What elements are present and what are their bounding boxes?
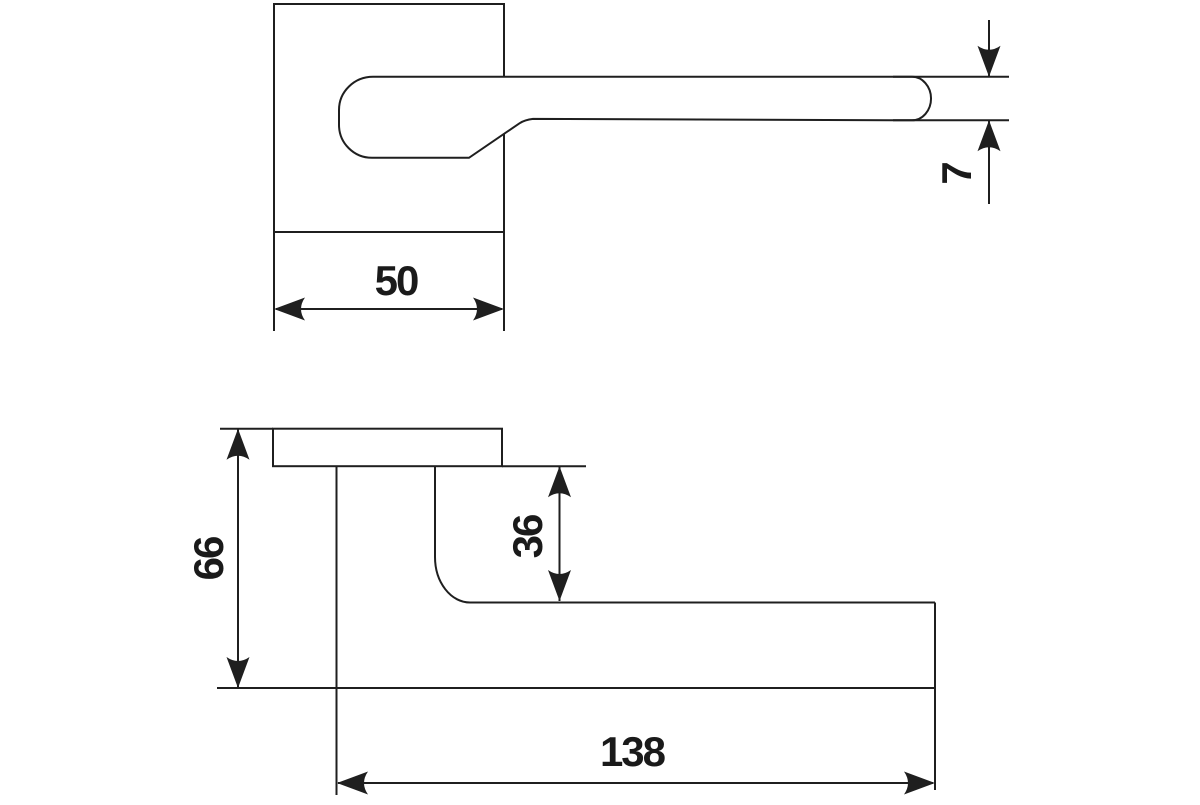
dimension line 138	[338, 782, 933, 784]
svg-text:138: 138	[600, 728, 666, 775]
dimension line 7 lower segment	[988, 120, 990, 204]
dimension line 66	[237, 429, 239, 688]
lever handle outline (top view)	[339, 77, 931, 158]
extension line left below rose	[273, 232, 275, 331]
arrowhead 66 up	[227, 429, 250, 460]
svg-text:36: 36	[504, 515, 551, 558]
dimension line 36	[559, 466, 561, 601]
dimension line 7 upper segment	[988, 20, 990, 77]
arrowhead 66 down	[227, 657, 250, 688]
arrowhead 50 right	[473, 298, 504, 321]
arrowhead 36 up	[548, 466, 571, 497]
arrowhead 7 down	[978, 46, 1001, 77]
extension line top edge of lever to right	[893, 76, 1009, 78]
arrowhead 50 left	[274, 298, 305, 321]
neck left edge (side view)	[336, 466, 338, 795]
lever bottom edge (side view)	[217, 687, 935, 689]
extension line right of plate bottom	[502, 465, 586, 467]
extension line bottom edge of lever to right	[893, 119, 1009, 121]
arrowhead 36 down	[548, 570, 571, 601]
extension line left of plate top	[220, 428, 273, 430]
svg-text:66: 66	[185, 537, 232, 580]
lever right end edge (side view)	[934, 603, 936, 791]
neck right edge with curve into lever top (side view)	[435, 466, 935, 602]
rose plate side view (bottom figure)	[273, 429, 502, 467]
extension line right below rose	[503, 232, 505, 331]
dimension line 50	[276, 308, 502, 310]
arrowhead 138 left	[337, 772, 368, 795]
svg-text:7: 7	[933, 163, 980, 185]
arrowhead 138 right	[904, 772, 935, 795]
rose plate square (top view)	[274, 4, 504, 232]
svg-text:50: 50	[375, 257, 418, 304]
arrowhead 7 up	[978, 120, 1001, 151]
